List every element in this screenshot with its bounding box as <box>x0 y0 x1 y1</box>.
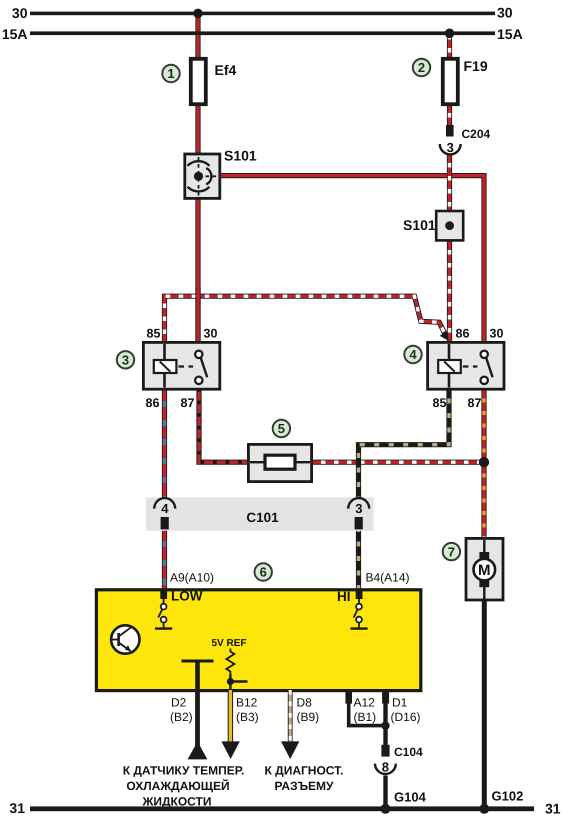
svg-text:1: 1 <box>167 66 174 81</box>
svg-text:85: 85 <box>433 396 447 410</box>
wire bus15A to fuse F19 (red/white) <box>447 35 452 59</box>
svg-text:31: 31 <box>9 800 25 816</box>
relay (4) high-speed <box>428 342 504 389</box>
ECU pin D1 + wire to C104 <box>382 690 389 746</box>
svg-text:2: 2 <box>418 60 425 75</box>
callout 1 (fuse Ef4) <box>162 65 179 82</box>
svg-text:C101: C101 <box>246 510 279 525</box>
wire bus30 to fuse Ef4 (red) <box>195 13 200 59</box>
svg-text:8: 8 <box>382 759 389 774</box>
svg-text:G102: G102 <box>492 789 524 804</box>
svg-text:D8: D8 <box>297 696 313 710</box>
wire branch relay4 pin86 to relay3 pin85 (red/white) <box>165 296 446 343</box>
callout 3 (relay low) <box>117 351 134 368</box>
svg-text:D1: D1 <box>392 696 408 710</box>
node junction A12/D1 <box>381 721 389 729</box>
wire crossover red over striped <box>195 288 200 343</box>
svg-text:(B2): (B2) <box>170 710 193 724</box>
svg-text:D2: D2 <box>171 696 187 710</box>
svg-text:C204: C204 <box>462 127 491 141</box>
callout 5 (resistor) <box>273 420 290 437</box>
svg-text:M: M <box>478 562 491 579</box>
callout 2 (fuse F19) <box>413 59 430 76</box>
svg-text:30: 30 <box>12 5 28 21</box>
wire ECU B12 5V REF out (yellow) <box>228 690 233 742</box>
svg-text:31: 31 <box>545 801 561 817</box>
ECU pin HI <box>350 590 367 629</box>
svg-text:3: 3 <box>447 140 454 155</box>
svg-text:6: 6 <box>260 565 267 580</box>
svg-text:15A: 15A <box>497 26 523 42</box>
svg-text:85: 85 <box>147 327 161 341</box>
svg-text:G104: G104 <box>394 790 427 805</box>
bus 31 (ground) <box>30 806 534 811</box>
svg-text:(B9): (B9) <box>297 710 320 724</box>
svg-text:15A: 15A <box>2 26 28 42</box>
svg-text:30: 30 <box>490 327 504 341</box>
svg-text:B4(A14): B4(A14) <box>366 571 410 585</box>
fuse Ef4 <box>191 59 206 104</box>
ground G102 junction <box>479 804 489 814</box>
svg-text:РАЗЪЕМУ: РАЗЪЕМУ <box>274 779 334 793</box>
wire ECU D8 to diagnostic (tan/white) <box>288 690 293 742</box>
wire relay4 pin87 via node A to motor (red/yellow) <box>481 388 486 540</box>
wire relay4 pin85 to C101 pin3 (black/tan) <box>359 388 450 499</box>
wire resistor to node A (red/white) <box>312 460 484 465</box>
svg-text:4: 4 <box>409 347 417 362</box>
bus 30 (battery feed) <box>30 12 495 16</box>
callout 7 (fan motor) <box>443 543 460 560</box>
motor M (7) cooling fan <box>466 538 503 600</box>
callout 4 (relay high) <box>404 346 421 363</box>
callout 6 (ECU) <box>255 563 272 580</box>
svg-text:ОХЛАЖДАЮЩЕЙ: ОХЛАЖДАЮЩЕЙ <box>126 779 229 793</box>
ECU pin A12 + wire to ground node <box>345 690 385 726</box>
connector C204 pin 3 <box>440 125 461 155</box>
wire ECU D2 to coolant temp sensor (black) <box>188 690 208 759</box>
svg-text:S101: S101 <box>224 148 257 164</box>
svg-text:30: 30 <box>204 327 218 341</box>
bus 15A <box>30 31 495 35</box>
splice S101 (right) <box>436 211 463 240</box>
arrow D8 down <box>281 741 299 759</box>
svg-text:5V REF: 5V REF <box>211 638 246 649</box>
svg-text:3: 3 <box>355 501 362 516</box>
ECU module (6) <box>96 590 420 691</box>
wire S101b to relay4 pin86 (red/white) <box>447 239 452 343</box>
svg-text:7: 7 <box>448 544 455 559</box>
resistor (5) fan series resistor <box>248 444 311 481</box>
svg-text:86: 86 <box>146 396 160 410</box>
svg-text:(D16): (D16) <box>391 710 421 724</box>
wire relay3 pin87 to resistor (red/black) <box>199 388 250 462</box>
wire relay3 pin86 to C101 pin4 (red/blue) <box>162 388 167 499</box>
svg-text:S101: S101 <box>403 217 436 233</box>
ground G104 junction <box>381 804 391 814</box>
node A junction resistor/relay4-87/motor <box>479 457 489 467</box>
connector C101 pin 4 <box>154 498 175 529</box>
wire C101 pin4 to ECU LOW (red/blue) <box>162 530 167 592</box>
svg-text:К ДАТЧИКУ ТЕМПЕР.: К ДАТЧИКУ ТЕМПЕР. <box>123 764 245 778</box>
splice S101 (left) <box>185 154 220 198</box>
fuse F19 <box>443 59 458 104</box>
svg-text:(B3): (B3) <box>236 710 259 724</box>
svg-text:4: 4 <box>161 501 169 516</box>
splice arrowhead into pin86 wire <box>440 331 449 341</box>
svg-text:(B1): (B1) <box>354 710 377 724</box>
svg-text:Ef4: Ef4 <box>215 62 237 78</box>
svg-text:3: 3 <box>122 353 129 368</box>
resistor 5V REF inside ECU <box>226 649 247 691</box>
svg-text:86: 86 <box>456 327 470 341</box>
wire C101 pin3 to ECU HI (black/tan) <box>356 530 361 592</box>
svg-text:87: 87 <box>468 396 482 410</box>
wire S101 to relay4 pin30 (red) <box>219 176 484 343</box>
connector C101 <box>146 497 374 530</box>
relay (3) low-speed <box>143 342 219 389</box>
svg-text:30: 30 <box>497 4 513 20</box>
svg-text:A12: A12 <box>354 696 376 710</box>
ECU pin LOW <box>155 590 172 629</box>
node bus15A tap <box>445 29 455 39</box>
wire S101 to relay3 pin30 (red) <box>195 198 200 343</box>
svg-text:HI: HI <box>337 589 351 604</box>
connector C101 pin 3 <box>348 498 369 529</box>
wire C104 to ground G104 (black) <box>383 776 387 808</box>
svg-text:87: 87 <box>181 396 195 410</box>
svg-text:К ДИАГНОСТ.: К ДИАГНОСТ. <box>265 764 344 778</box>
sensor input bar (D2) inside ECU <box>182 661 214 690</box>
svg-text:5: 5 <box>278 421 285 436</box>
svg-text:B12: B12 <box>236 696 258 710</box>
node bus30 tap <box>193 9 203 19</box>
wire F19 to connector C204 (red/white) <box>447 103 452 126</box>
arrow B12 down <box>221 741 239 759</box>
wire Ef4 to splice S101 (red) <box>195 103 200 155</box>
transistor Q inside ECU <box>111 625 139 653</box>
wire motor to ground G102 (black) <box>482 599 487 808</box>
svg-text:LOW: LOW <box>171 589 203 604</box>
svg-text:F19: F19 <box>464 58 488 74</box>
connector C104 pin 8 <box>375 745 396 775</box>
svg-text:A9(A10): A9(A10) <box>170 571 214 585</box>
wire C204 to splice S101b (red/white) <box>447 155 452 212</box>
svg-text:C104: C104 <box>394 745 423 759</box>
